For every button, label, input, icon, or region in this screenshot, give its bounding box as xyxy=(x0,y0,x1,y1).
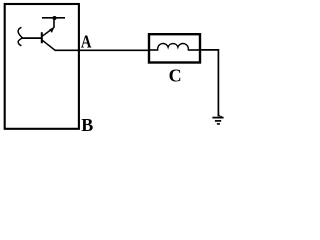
svg-text:A: A xyxy=(81,32,92,52)
svg-text:C: C xyxy=(169,65,182,85)
svg-text:B: B xyxy=(81,115,93,135)
